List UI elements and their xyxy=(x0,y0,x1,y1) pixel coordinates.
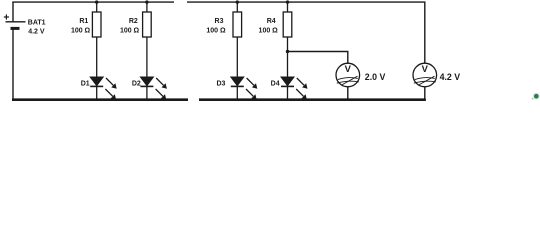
LED D1 xyxy=(90,37,117,100)
label BAT1 value xyxy=(28,19,46,35)
label R3 xyxy=(206,18,226,34)
svg-text:4.2 V: 4.2 V xyxy=(440,72,461,82)
LED D4 xyxy=(281,37,308,100)
LED D3 xyxy=(231,37,257,100)
wire: top rail left circuit xyxy=(12,1,174,3)
node: junction R2 top xyxy=(145,0,148,3)
voltmeter VM2 xyxy=(413,63,437,99)
wire: R4 bottom to junction handled in LED lead; branch wire to voltmeter VM1 xyxy=(288,52,348,64)
watermark glyph xyxy=(532,93,540,100)
label R1 xyxy=(71,18,91,34)
svg-text:D2: D2 xyxy=(132,80,141,87)
svg-text:D3: D3 xyxy=(216,80,225,87)
wire: top rail right circuit xyxy=(187,1,426,3)
resistor R2 xyxy=(143,2,152,37)
svg-text:2.0 V: 2.0 V xyxy=(365,72,386,82)
svg-text:D1: D1 xyxy=(81,80,90,87)
resistor R1 xyxy=(92,2,101,37)
svg-text:D4: D4 xyxy=(271,80,280,87)
label R2 xyxy=(120,18,140,34)
svg-text:R1: R1 xyxy=(79,18,88,25)
node: junction R4 top xyxy=(286,0,289,3)
wire: bottom rail left circuit xyxy=(12,98,188,101)
resistor R4 xyxy=(283,2,292,37)
svg-text:4.2 V: 4.2 V xyxy=(28,29,45,36)
node: junction R3 top xyxy=(236,0,239,3)
svg-text:100 Ω: 100 Ω xyxy=(206,27,226,34)
LED D2 xyxy=(140,37,167,100)
battery BAT1 xyxy=(4,2,26,100)
svg-text:100 Ω: 100 Ω xyxy=(71,27,91,34)
wire: right edge down to voltmeter VM2 xyxy=(424,2,426,63)
svg-text:100 Ω: 100 Ω xyxy=(120,27,140,34)
svg-text:R4: R4 xyxy=(267,18,276,25)
resistor R3 xyxy=(233,2,242,37)
svg-text:R3: R3 xyxy=(215,18,224,25)
svg-text:BAT1: BAT1 xyxy=(28,19,46,26)
label R4 xyxy=(259,18,279,34)
wire: bottom rail right circuit xyxy=(199,98,426,101)
node: junction R1 top xyxy=(95,0,98,3)
svg-text:100 Ω: 100 Ω xyxy=(259,27,279,34)
svg-text:R2: R2 xyxy=(129,18,138,25)
node: junction below R4 xyxy=(286,50,289,53)
voltmeter VM1 xyxy=(336,63,360,99)
